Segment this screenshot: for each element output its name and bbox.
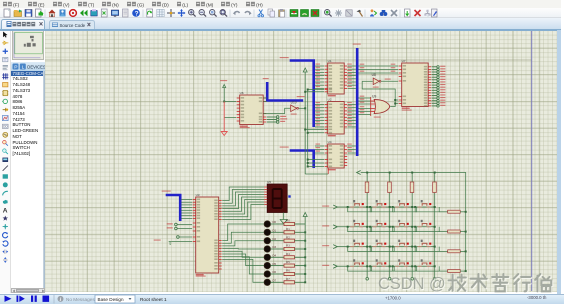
svg-text:R0: R0 [286, 219, 290, 223]
wire keypad row 2 [337, 246, 434, 248]
wire U3 to 7seg seg5 [222, 199, 264, 213]
junction column [389, 246, 391, 248]
wire button bypass [370, 207, 394, 212]
junction [411, 171, 413, 173]
wire row to resistor [439, 270, 447, 272]
junction column [434, 265, 436, 267]
wire bus to U2 [315, 116, 324, 118]
svg-text:?: ? [135, 10, 139, 17]
wire keypad column 0 [366, 172, 368, 277]
svg-text:R7: R7 [286, 277, 290, 281]
LED D2 [264, 237, 277, 244]
bus label [297, 96, 305, 97]
resistor row 2 [448, 250, 460, 253]
wire rail to U2 [305, 129, 324, 131]
net label [154, 239, 161, 240]
junction column [411, 226, 413, 228]
svg-text:U9: U9 [372, 95, 376, 99]
wire row to resistor [439, 211, 447, 213]
net label [347, 102, 352, 103]
wire resistor to rail [460, 231, 465, 233]
wire bus to U7 [359, 69, 399, 71]
junction [394, 103, 396, 105]
wire U3 to LED D5 [222, 254, 264, 266]
IC U6 [237, 91, 266, 127]
net label [360, 106, 365, 107]
U7 output terminals [432, 66, 437, 68]
wire button bypass [415, 247, 439, 252]
wire U3 to 7seg seg0 [222, 187, 264, 200]
wire bus to U1 [315, 84, 324, 86]
junction [307, 165, 309, 167]
net label [316, 70, 321, 71]
junction column [411, 246, 413, 248]
wire U3 to 7seg seg7 [222, 204, 264, 219]
junction [389, 171, 391, 173]
junction [307, 162, 309, 164]
wire U2 to bus [348, 113, 356, 115]
power label [220, 80, 227, 81]
wire rail A [304, 72, 306, 174]
net label [391, 67, 396, 68]
button 12 [350, 259, 364, 266]
junction button [369, 246, 371, 248]
wire rail to U4 [308, 165, 324, 167]
net label [347, 115, 352, 116]
net label [347, 80, 352, 81]
button 9 [373, 240, 387, 247]
net label [347, 121, 352, 122]
wire keypad column 2 [411, 172, 413, 277]
svg-text:CSDN @: CSDN @ [378, 275, 446, 293]
svg-text:DEVICES: DEVICES [27, 64, 46, 69]
net label [316, 105, 321, 106]
wire rail to U1 [308, 89, 324, 91]
wire button bypass [348, 227, 372, 232]
LED D1 [264, 228, 277, 235]
wire U6 to bus [263, 97, 266, 99]
wire button bypass [393, 266, 417, 271]
net label [360, 64, 365, 65]
resistor R4 [271, 252, 306, 259]
resistor column 3 [433, 182, 437, 192]
wire rail to U1 [305, 91, 324, 93]
grid emphasis line [45, 59, 532, 61]
net label [316, 64, 321, 65]
wire bus to U1 [315, 65, 324, 67]
svg-text:U7: U7 [402, 59, 406, 63]
row label [322, 265, 329, 266]
wire button bypass [415, 227, 439, 232]
resistor R7 [271, 277, 306, 284]
wire LED rail [304, 216, 306, 282]
svg-text:U4: U4 [328, 140, 332, 144]
power +5V terminal 2 [303, 68, 307, 72]
resistor R5 [271, 260, 306, 267]
svg-text:U2: U2 [328, 97, 332, 101]
svg-text:R4: R4 [286, 252, 290, 256]
junction button [392, 265, 394, 267]
wire U4 to bus [348, 152, 356, 154]
svg-text:U1: U1 [328, 59, 332, 63]
net label [385, 79, 391, 80]
wire bus to U7 [359, 72, 399, 74]
ground symbol small [169, 241, 172, 244]
IC U4 [325, 140, 347, 171]
wire bus to U3 [181, 209, 192, 211]
net label [316, 73, 321, 74]
net label [347, 118, 352, 119]
junction button [369, 206, 371, 208]
wire U3 to 7seg seg1 [222, 189, 264, 203]
wire vcc to U6 [223, 88, 225, 101]
LED D3 [264, 245, 277, 252]
wire bus to U3 [181, 204, 192, 206]
wire bus to U2 [315, 126, 324, 128]
junction [307, 159, 309, 161]
junction [307, 132, 309, 134]
wire row to resistor [439, 250, 447, 252]
net label [316, 83, 321, 84]
svg-text:A: A [3, 207, 8, 214]
net label [316, 115, 321, 116]
net label [347, 147, 352, 148]
junction rail [304, 281, 306, 283]
wire keypad row 3 [337, 265, 434, 267]
value label 80C51 [240, 127, 250, 128]
wire to U6 pin [224, 117, 236, 119]
wire bus to U2 [315, 107, 324, 109]
net label [360, 109, 365, 110]
terminal circle column 2 [411, 277, 414, 280]
button 11 [418, 240, 432, 247]
junction rail [304, 256, 306, 258]
wire button bypass [393, 247, 417, 252]
junction [304, 91, 306, 93]
terminal circle column 3 [434, 277, 437, 280]
resistor R3 [271, 244, 306, 251]
wire U3 to LED D7 [222, 259, 264, 282]
button 6 [395, 220, 409, 227]
junction column [389, 226, 391, 228]
net label [316, 147, 321, 148]
button 2 [395, 200, 409, 207]
junction [434, 171, 436, 173]
wire bus to U3 [181, 207, 192, 209]
LED D5 [264, 262, 277, 269]
wire bus to U1 [315, 71, 324, 73]
svg-text:R6: R6 [286, 269, 290, 273]
button 15 [418, 259, 432, 266]
wire button bypass [415, 207, 439, 212]
wire U3 to 7seg seg3 [222, 194, 264, 208]
net label [347, 70, 352, 71]
junction rail [304, 248, 306, 250]
IC U3 [193, 193, 222, 276]
button 8 [350, 240, 364, 247]
terminal circle [177, 236, 180, 239]
wire terminal to U3 [179, 236, 192, 238]
wire bus to U9 input [359, 100, 371, 102]
wire U8 output to U7 [381, 80, 398, 82]
net label [316, 76, 321, 77]
terminal circles U6 [277, 116, 280, 119]
junction [223, 101, 225, 103]
net label [316, 151, 321, 152]
junction column [389, 206, 391, 208]
wire 7seg common [283, 212, 285, 219]
button 4 [350, 220, 364, 227]
junction button [392, 226, 394, 228]
wire U3 to LED D6 [222, 257, 264, 274]
wire U2 to bus [348, 120, 356, 122]
bus U6 port [267, 82, 303, 100]
wire bus to U2 [315, 113, 324, 115]
wire bus to U3 [181, 215, 192, 217]
terminal circle column 0 [366, 277, 369, 280]
junction button [414, 265, 416, 267]
wire U1 to bus [348, 81, 356, 83]
junction column [434, 246, 436, 248]
wire rail to U4 [308, 159, 324, 161]
net label [360, 102, 365, 103]
wire button bypass [370, 247, 394, 252]
junction [307, 89, 309, 91]
wire U2 to bus [348, 126, 356, 128]
button 3 [418, 200, 432, 207]
junction button [414, 246, 416, 248]
button 1 [373, 200, 387, 207]
wire bus to U2 [315, 123, 324, 125]
wire U1 to bus [348, 68, 356, 70]
wire bus to U7 [359, 65, 399, 67]
LED D7 [264, 278, 277, 285]
wire U3 to 7seg seg2 [222, 192, 264, 206]
wire to U6 pin RESET [224, 101, 236, 103]
net label [316, 86, 321, 87]
junction button [414, 226, 416, 228]
wire keypad top rail [361, 172, 466, 271]
wire U4 to bus [348, 145, 356, 147]
bus label AD[0..7] [162, 190, 171, 191]
OR gate U9 [372, 95, 389, 118]
wire button bypass [348, 207, 372, 212]
wire bus to U4 [315, 152, 324, 154]
net label [347, 151, 352, 152]
row label [322, 245, 329, 246]
svg-text:U3: U3 [196, 193, 200, 197]
junction [465, 250, 467, 252]
bus label [263, 78, 269, 79]
wire bus to U3 [181, 217, 192, 219]
junction [465, 270, 467, 272]
wire keypad row 0 [337, 206, 434, 208]
wire bus to U2 [315, 104, 324, 106]
net label [347, 86, 352, 87]
net label [316, 80, 321, 81]
net label [347, 83, 352, 84]
resistor row 1 [448, 230, 460, 233]
wire keypad column 3 [434, 172, 436, 277]
junction rail [304, 265, 306, 267]
junction button [347, 226, 349, 228]
wire U6 to bus [263, 101, 266, 103]
net label [347, 64, 352, 65]
bus AD top-left [290, 61, 314, 127]
wire U8 input [362, 80, 372, 82]
junction button [347, 206, 349, 208]
net label [347, 144, 352, 145]
wire U2 to bus [348, 107, 356, 109]
junction button [369, 226, 371, 228]
resistor column 0 [365, 182, 369, 192]
svg-text:P: P [14, 64, 17, 70]
wire rail B [307, 90, 309, 167]
junction button [347, 246, 349, 248]
wire bus to U4 [315, 149, 324, 151]
net label [316, 124, 321, 125]
junction [304, 107, 306, 109]
bus label [280, 147, 289, 148]
net label [347, 67, 352, 68]
ground symbol [221, 132, 227, 136]
resistor R2 [271, 235, 306, 242]
svg-text:U6: U6 [240, 91, 244, 95]
wire button bypass [370, 266, 394, 271]
wire resistor to rail [460, 270, 465, 272]
junction column [366, 246, 368, 248]
junction button [414, 206, 416, 208]
net label [316, 108, 321, 109]
wire U1 to bus [348, 87, 356, 89]
LED D6 [264, 270, 277, 277]
wire U3 to LED D3 [222, 248, 264, 250]
row label [322, 225, 329, 226]
resistor column 2 [410, 182, 414, 192]
wire gnd to U3 [172, 240, 192, 242]
junction column [411, 206, 413, 208]
wire rail to U4 bottom pin [305, 173, 328, 175]
wire U2 to bus [348, 116, 356, 118]
wire U1 to bus [348, 65, 356, 67]
wire bus to U1 [315, 78, 324, 80]
wire U3 to 7seg seg4 [222, 197, 264, 211]
wire terminal to U3 [177, 227, 192, 229]
net label [391, 64, 396, 65]
junction column [411, 265, 413, 267]
button 5 [373, 220, 387, 227]
wire button bypass [370, 227, 394, 232]
wire bus to U1 [315, 87, 324, 89]
buffer gate U8 [372, 73, 381, 88]
svg-text:U5: U5 [267, 180, 271, 184]
wire U2 to bus [348, 123, 356, 125]
wire button bypass [348, 266, 372, 271]
wire keypad column 1 [389, 172, 391, 277]
button 10 [395, 240, 409, 247]
wire bus to U9 input [359, 103, 371, 105]
net label [391, 71, 396, 72]
junction button [369, 265, 371, 267]
wire to U7 pin [395, 99, 398, 101]
wire bus to U9 input [359, 114, 371, 116]
power terminal LED rail [303, 212, 307, 216]
junction [394, 99, 396, 101]
net label [316, 67, 321, 68]
wire bus to U1 [315, 81, 324, 83]
button 0 [350, 200, 364, 207]
net label [316, 102, 321, 103]
wire U1 to bus [348, 75, 356, 77]
junction button [347, 265, 349, 267]
button 7 [418, 220, 432, 227]
terminal circle column 1 [389, 277, 392, 280]
button 14 [395, 259, 409, 266]
wire button bypass [415, 266, 439, 271]
wire bus to U3 [181, 198, 192, 200]
wire U3 to LED D2 [222, 241, 264, 246]
value label 8255A [196, 275, 206, 276]
svg-text:R2: R2 [286, 235, 290, 239]
IC U2 [325, 97, 347, 136]
button 13 [373, 259, 387, 266]
resistor column 1 [388, 182, 392, 192]
wire U4 to bus [348, 149, 356, 151]
wire U3 to LED D1 [222, 232, 264, 243]
U4 bottom pin [327, 168, 329, 174]
wire bus to U4 [315, 145, 324, 147]
wire resistor to rail [460, 211, 465, 213]
LED D4 [264, 253, 277, 260]
wire U1 to bus [348, 78, 356, 80]
wire U3 to LED D0 [222, 224, 264, 240]
junction rail [304, 273, 306, 275]
NOT gate U10 [291, 101, 299, 115]
net label [347, 108, 352, 109]
wire feedback U9 out to U8 in [362, 81, 395, 106]
IC U7 [399, 59, 431, 109]
net label [347, 105, 352, 106]
wire bus to U1 [315, 75, 324, 77]
svg-text:L: L [22, 64, 25, 70]
junction column [434, 226, 436, 228]
wire U1 to bus [348, 84, 356, 86]
terminal arrow left [357, 170, 361, 174]
sheet border [531, 31, 533, 291]
wire U2 to bus [348, 104, 356, 106]
resistor R0 [271, 219, 306, 226]
net label [360, 96, 365, 97]
wire bus to U1 [315, 68, 324, 70]
net label [347, 73, 352, 74]
row label [322, 205, 329, 206]
LED D0 [264, 220, 277, 227]
svg-text:Base Design: Base Design [98, 296, 124, 301]
wire button bypass [393, 207, 417, 212]
wire bus to U3 [181, 201, 192, 203]
resistor row 3 [448, 269, 460, 272]
net label [360, 112, 365, 113]
wire rail to U2 [308, 132, 324, 134]
net label [360, 71, 365, 72]
junction rail [304, 240, 306, 242]
wire row to resistor [439, 231, 447, 233]
wire button bypass [348, 247, 372, 252]
junction column [366, 226, 368, 228]
wire button bypass [393, 227, 417, 232]
resistor row 0 [448, 210, 460, 213]
junction [465, 231, 467, 233]
